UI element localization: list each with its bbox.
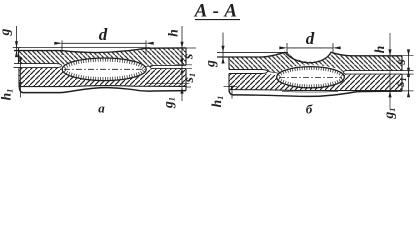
svg-text:h: h xyxy=(372,46,387,54)
figure b: weld nugget (deep penetration) xyxy=(277,67,345,88)
figure a: weld nugget (cast zone) xyxy=(62,58,146,81)
figure a: right lap gap between sheets xyxy=(150,65,186,68)
svg-text:б: б xyxy=(306,102,313,117)
svg-text:g1: g1 xyxy=(381,108,397,120)
figure b: top surface outline with deep indentation xyxy=(217,52,402,63)
figure b: bottom sheet hatched body xyxy=(229,74,402,91)
figure a: g1 reference line (bottom right) xyxy=(147,83,190,85)
svg-text:g: g xyxy=(0,28,12,36)
figure b: left lap gap xyxy=(229,70,268,74)
figure b: spill arc under nugget xyxy=(282,90,338,93)
svg-text:g: g xyxy=(203,60,218,68)
figure a: bottom sheet hatched body xyxy=(19,68,186,87)
figure b: sheet left edges xyxy=(228,57,230,90)
dimension d (fig a, nugget diameter) xyxy=(54,41,153,56)
svg-text:a: a xyxy=(98,101,105,116)
figure a: left lap gap between sheets xyxy=(14,64,62,68)
dimension d (fig b) xyxy=(279,43,340,53)
figure a: original-surface reference line (for g) xyxy=(15,47,151,49)
figure a: bottom surface (medium line) xyxy=(19,86,186,87)
dimension line for h1 (fig a, bottom left) xyxy=(19,57,22,97)
figure b: sheet right edges xyxy=(401,56,403,91)
svg-text:s: s xyxy=(180,54,195,60)
dimension g (fig b, left) xyxy=(221,33,224,64)
figure a: interface link nugget to right gap xyxy=(146,65,153,67)
dimension line for g (fig a, top left) xyxy=(13,26,21,57)
figure b: original-surface reference line (for g) xyxy=(217,51,288,53)
svg-text:h1: h1 xyxy=(209,96,225,108)
figure b: link gap tip to nugget xyxy=(268,72,279,74)
section title A-A xyxy=(194,1,243,22)
svg-text:g1: g1 xyxy=(161,97,177,109)
svg-text:A-A: A-A xyxy=(194,1,243,22)
figure a: top sheet hatched body xyxy=(19,48,187,66)
svg-text:h1: h1 xyxy=(0,89,15,101)
dimension h1 (fig b, bottom left) xyxy=(224,86,238,99)
svg-text:d: d xyxy=(99,25,108,44)
svg-text:d: d xyxy=(306,29,315,48)
figure a: sheet left edges xyxy=(18,48,21,88)
extension line for h and g1 (fig b, right) xyxy=(388,33,391,108)
svg-text:s: s xyxy=(393,59,408,65)
dimension column s and s1 (fig b, right) xyxy=(402,49,414,97)
figure b: bottom surface (medium line) xyxy=(229,90,402,91)
figure b: top sheet hatched body xyxy=(229,52,402,73)
svg-text:h: h xyxy=(166,29,181,37)
figure b: right lap gap xyxy=(344,71,403,75)
figure a: top sheet outline (surface with indentation dip) xyxy=(14,48,186,53)
figure b: lower bulge contour (thick) xyxy=(229,90,402,97)
right dimension column (fig a): h, s, s1, g1 xyxy=(174,26,196,101)
figure a: sheet right edges xyxy=(185,48,187,91)
figure a: lower bulge contour (thick) xyxy=(19,87,186,92)
figure b: nugget centre dash-dot line xyxy=(279,76,342,78)
figure a: nugget centre dash-dot line xyxy=(64,68,145,70)
